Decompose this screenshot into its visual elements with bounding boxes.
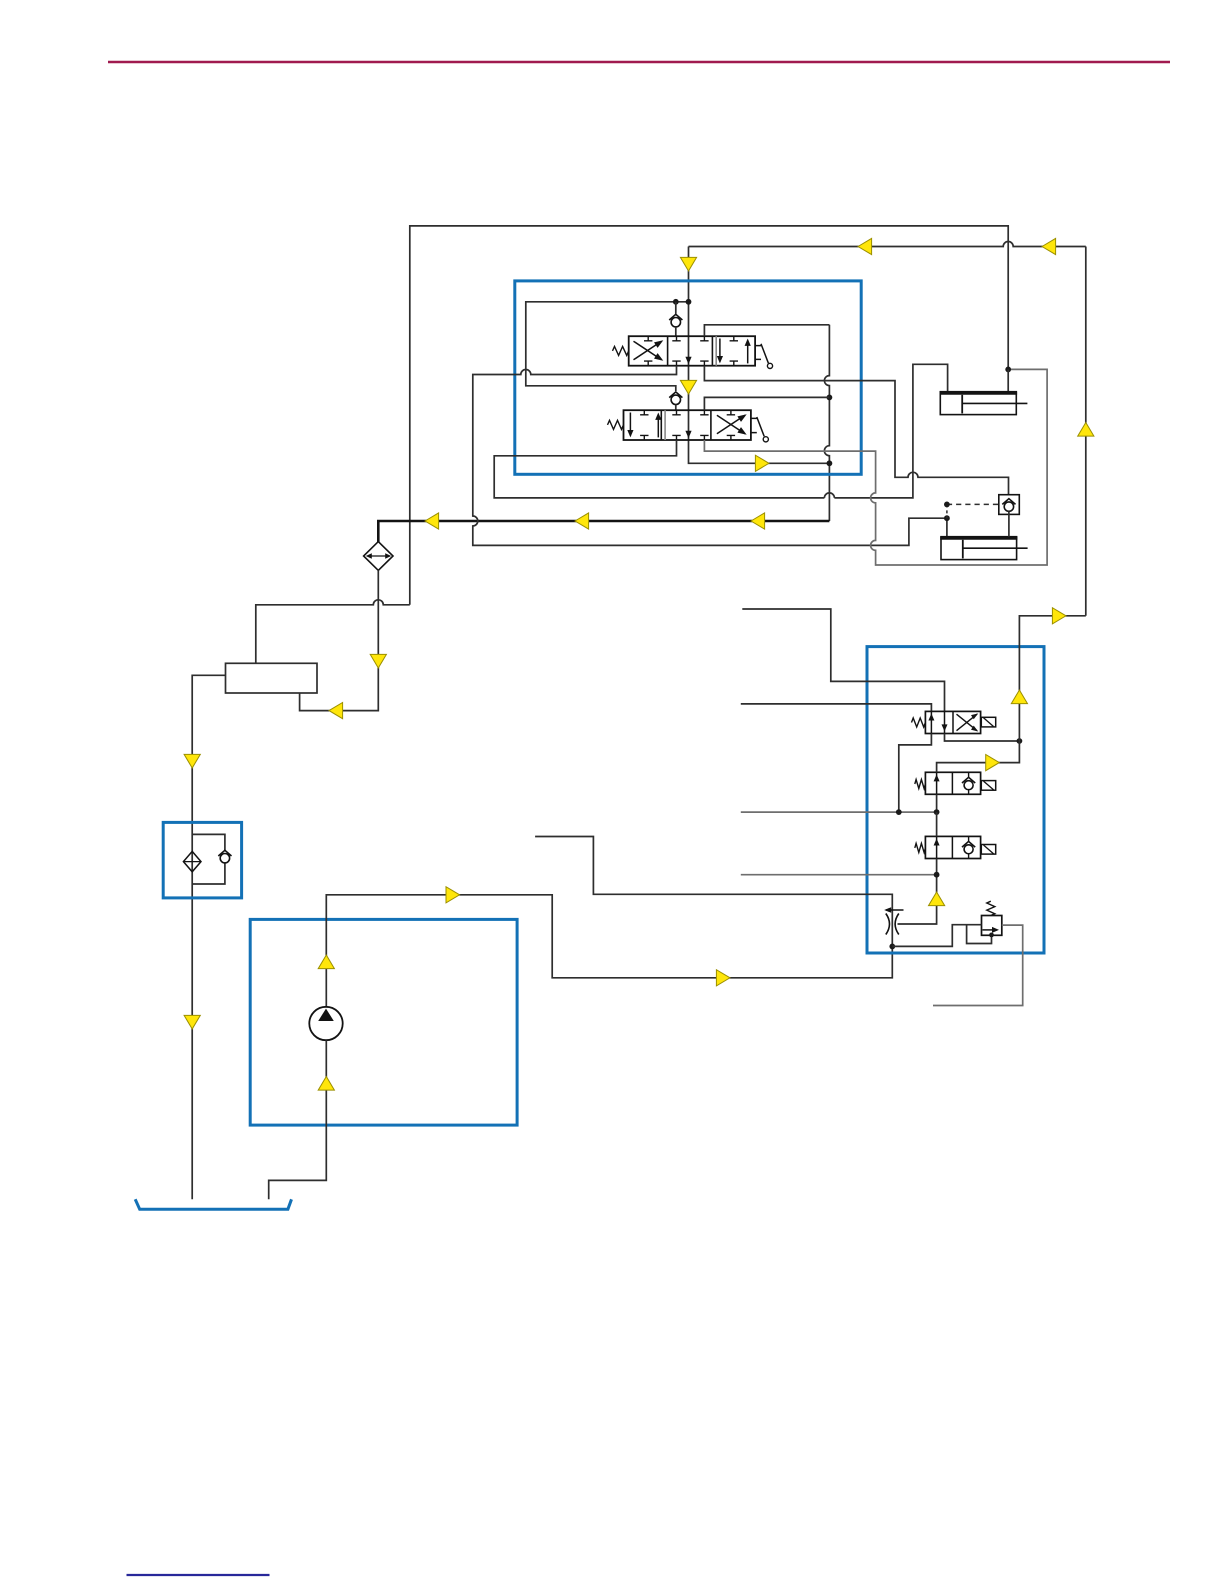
SVA spring [912, 718, 926, 727]
flow arrow right on y=977.8 [716, 970, 730, 986]
V2 centre section blocked ports [672, 410, 680, 415]
wire: stub line 1 into manifold (to SVA top right) [742, 609, 944, 711]
wire: supply tee y=302 and drop x=525.8 to lower check valve feed [526, 302, 689, 391]
flow arrow down below heat exchanger [370, 654, 386, 668]
solenoid valve SVB body [925, 772, 980, 794]
SVA solenoid [981, 717, 995, 727]
SVB check element [968, 772, 970, 777]
relief valve internal arrow [983, 929, 998, 931]
V2 return spring [608, 420, 624, 429]
restrictor arrow [886, 909, 904, 911]
wire: V2 bottom-right port to outer cylinder loop (grey) [704, 369, 1047, 565]
SVC through-line (up arrow) [936, 836, 938, 858]
wire: outer return loop top (y=226) with drops to x=410 and x=1008 [410, 226, 1008, 605]
V1 right section parallel arrows [719, 339, 721, 362]
flow arrow left on bold return at x=751 [751, 513, 765, 529]
V2 right section ports [727, 410, 735, 415]
SVA through-line left (up arrow) [930, 711, 932, 733]
SVA through-line right (down arrow) [944, 711, 946, 733]
junction dot (936.6,874.7) [934, 872, 940, 878]
wire: SVB bottom port to node [936, 794, 938, 812]
SVC solenoid [981, 845, 995, 855]
wire: V1 bottom-left port long run to cylinder C2 left port [473, 366, 947, 546]
V1 left section crossover (X) arrows [634, 341, 662, 360]
junction dot (898.8,812.1) [896, 809, 902, 815]
wire: relief valve outlet stub [933, 925, 1023, 1005]
flow arrow right on y=894.8 [446, 887, 460, 903]
wire: SVA lower-left exit to node [899, 734, 932, 813]
V2 roller-lever actuator [751, 417, 764, 436]
junction dot (946.9,518.2) [944, 515, 950, 521]
directional valve V1 body [629, 336, 755, 366]
V1 right section ports [730, 336, 738, 341]
relief valve body [982, 916, 1002, 936]
filter (diamond) in return line [183, 851, 201, 871]
wire: main drop x=688.5 from y=247 to y=463 then right to P-rail [689, 247, 830, 464]
junction dot (1008.2,369.4) [1005, 367, 1011, 373]
junction dot (675.8,301.8) [673, 299, 679, 305]
wire: block left port to tank line [192, 675, 225, 1199]
cylinder C2 barrel [941, 537, 1017, 560]
V1 roller-lever actuator [755, 344, 768, 363]
junction dot (946.9,504.4) [944, 502, 950, 508]
wire: pilot check to C2 right port [1008, 511, 1010, 536]
flow arrow down on x=192.2 above filter [184, 754, 200, 768]
pump (circle + solid triangle) [309, 1007, 342, 1040]
SVB spring [915, 780, 926, 789]
wire: V2 bottom-left port long run to cylinder C1 left port [494, 364, 947, 498]
enclosure: solenoid valve manifold (blue box) [867, 647, 1044, 953]
wire: SVC bottom port down to restrictor junction [898, 859, 937, 925]
flow arrow right on manifold outlet y=615.8 [1052, 608, 1066, 624]
bypass check valve branch [192, 834, 225, 884]
wire: SVA lower-right exit to riser [945, 734, 1020, 742]
wire: C1 right port from junction [1007, 369, 1009, 391]
flow arrow down on x=192.2 below filter [184, 1015, 200, 1029]
junction dot (829.4,397.4) [827, 395, 833, 401]
wire: return collector y=247 from main drop to right riser (hop over x=1008) [689, 242, 1086, 247]
pilot line (dashed) to check valve [946, 504, 948, 518]
V2 section dividers [660, 410, 662, 440]
flow arrow up on riser x=1019.4 [1011, 690, 1027, 704]
pilot check valve element [1004, 502, 1013, 511]
enclosure: return filter unit (blue box) [163, 822, 241, 898]
SVC spring [915, 843, 926, 852]
wire: SVB top port to manifold outlet riser [937, 616, 1086, 773]
flow arrow right on y=463.3 [755, 455, 769, 471]
junction dot (991.5,934.9) [989, 933, 994, 938]
cylinder C2 piston and rod [962, 540, 964, 559]
junction dot (829.4,463.3) [827, 460, 833, 466]
enclosure: pump unit (blue box) [250, 919, 517, 1125]
flow arrow right on y=762.6 [986, 755, 1000, 771]
V1 main line arrowhead in centre [685, 357, 691, 364]
SVA crossover X [957, 714, 978, 731]
flow arrow up above pump [318, 955, 334, 969]
V2 right section crossover (X) arrows [717, 415, 745, 434]
pilot-operated check valve box [999, 495, 1020, 515]
hop on y=497.9 over rail x=829.4 [824, 493, 834, 498]
flow arrow down on x=688.5 above manifold [680, 257, 696, 271]
directional valve V2 body [624, 410, 751, 440]
wire: return from heat exchanger down to manifold block [300, 570, 379, 710]
wire: pump pressure out to manifold feed [326, 895, 892, 1007]
wire: stub line 4 into manifold (node below SVC) [741, 874, 937, 876]
SVB solenoid [981, 781, 995, 791]
wire: bold return y=521 to heat exchanger [378, 521, 829, 542]
cylinder C1 piston and rod [961, 395, 963, 414]
wire: stub line 5 feed through restrictor [535, 837, 892, 947]
flow arrow up on riser x=1085.8 [1078, 423, 1094, 437]
check valve above upper valve [675, 302, 677, 314]
flow arrow left on y=247 at x=1042 [1042, 238, 1056, 254]
tank (reservoir) [135, 1199, 291, 1209]
wire: rail x=829.4 from y=325 to bold return y=521 (hops at 380.6 & 450.7) [824, 325, 829, 521]
junction dot (936.6,812.1) [934, 809, 940, 815]
V1 centre section blocked ports [672, 336, 680, 341]
flow arrow left on bold return at x=425 [425, 513, 439, 529]
wire: relief valve inlet from restrictor junction [892, 925, 981, 947]
V1 return spring [613, 346, 629, 355]
wire: V2 top-right port to rail [704, 397, 829, 410]
flow arrow left on y=710.6 [329, 703, 343, 719]
wire: pump suction from tank [269, 1040, 327, 1199]
V1 section dividers [667, 336, 669, 366]
header rule [108, 61, 1170, 64]
wire: V1 top-right port to rail x=829.4 [704, 325, 829, 336]
V2 left section ports [640, 410, 648, 415]
wire: SVC top port from node [936, 812, 938, 836]
V2 main line arrowhead in centre [685, 431, 691, 438]
bypass check valve [220, 854, 229, 863]
wire: stub line 3 into manifold (node between SVA/SVB/SVC) [741, 811, 937, 813]
footer rule (navy) [127, 1574, 270, 1576]
flow arrow left on y=247 at x=858 [858, 238, 872, 254]
V2 left section parallel arrows [629, 413, 631, 436]
cooler block (rectangle) [226, 663, 318, 693]
wire: V1 bottom-right port to cyl line (y=380.6 right) [704, 366, 1008, 495]
flow arrow left on bold return at x=575 [575, 513, 589, 529]
wire: right riser x=1085.8 (y=247..616) [1085, 247, 1087, 616]
check valve above lower valve [671, 395, 680, 404]
heat exchanger (diamond) on return line [364, 542, 393, 571]
junction dot (1019.4,741) [1017, 738, 1023, 744]
SVB through-line (up arrow) [936, 772, 938, 794]
flow arrow up on suction line [318, 1077, 334, 1091]
solenoid valve SVC body [925, 836, 980, 858]
SVC check element [968, 836, 970, 841]
restrictor (orifice) on feed line [886, 914, 890, 935]
wire: drop from outer loop x=410 to block (hop over x=378) [256, 600, 410, 664]
relief valve spring [987, 901, 995, 915]
junction dot (892.3,946.4) [889, 944, 895, 950]
V1 left section ports [644, 336, 652, 341]
wire: stub line 2 into manifold (to SVA top left) [741, 704, 932, 712]
flow arrow down on x=688.5 between valves [680, 380, 696, 394]
enclosure: directional valve station (blue box) [515, 281, 861, 474]
solenoid valve SVA body [925, 711, 980, 733]
junction dot (688.5,301.8) [686, 299, 692, 305]
wire: relief valve pilot loop [967, 925, 992, 944]
cylinder C1 barrel [940, 392, 1016, 415]
flow arrow up on x=936.6 below SVC [929, 892, 945, 906]
